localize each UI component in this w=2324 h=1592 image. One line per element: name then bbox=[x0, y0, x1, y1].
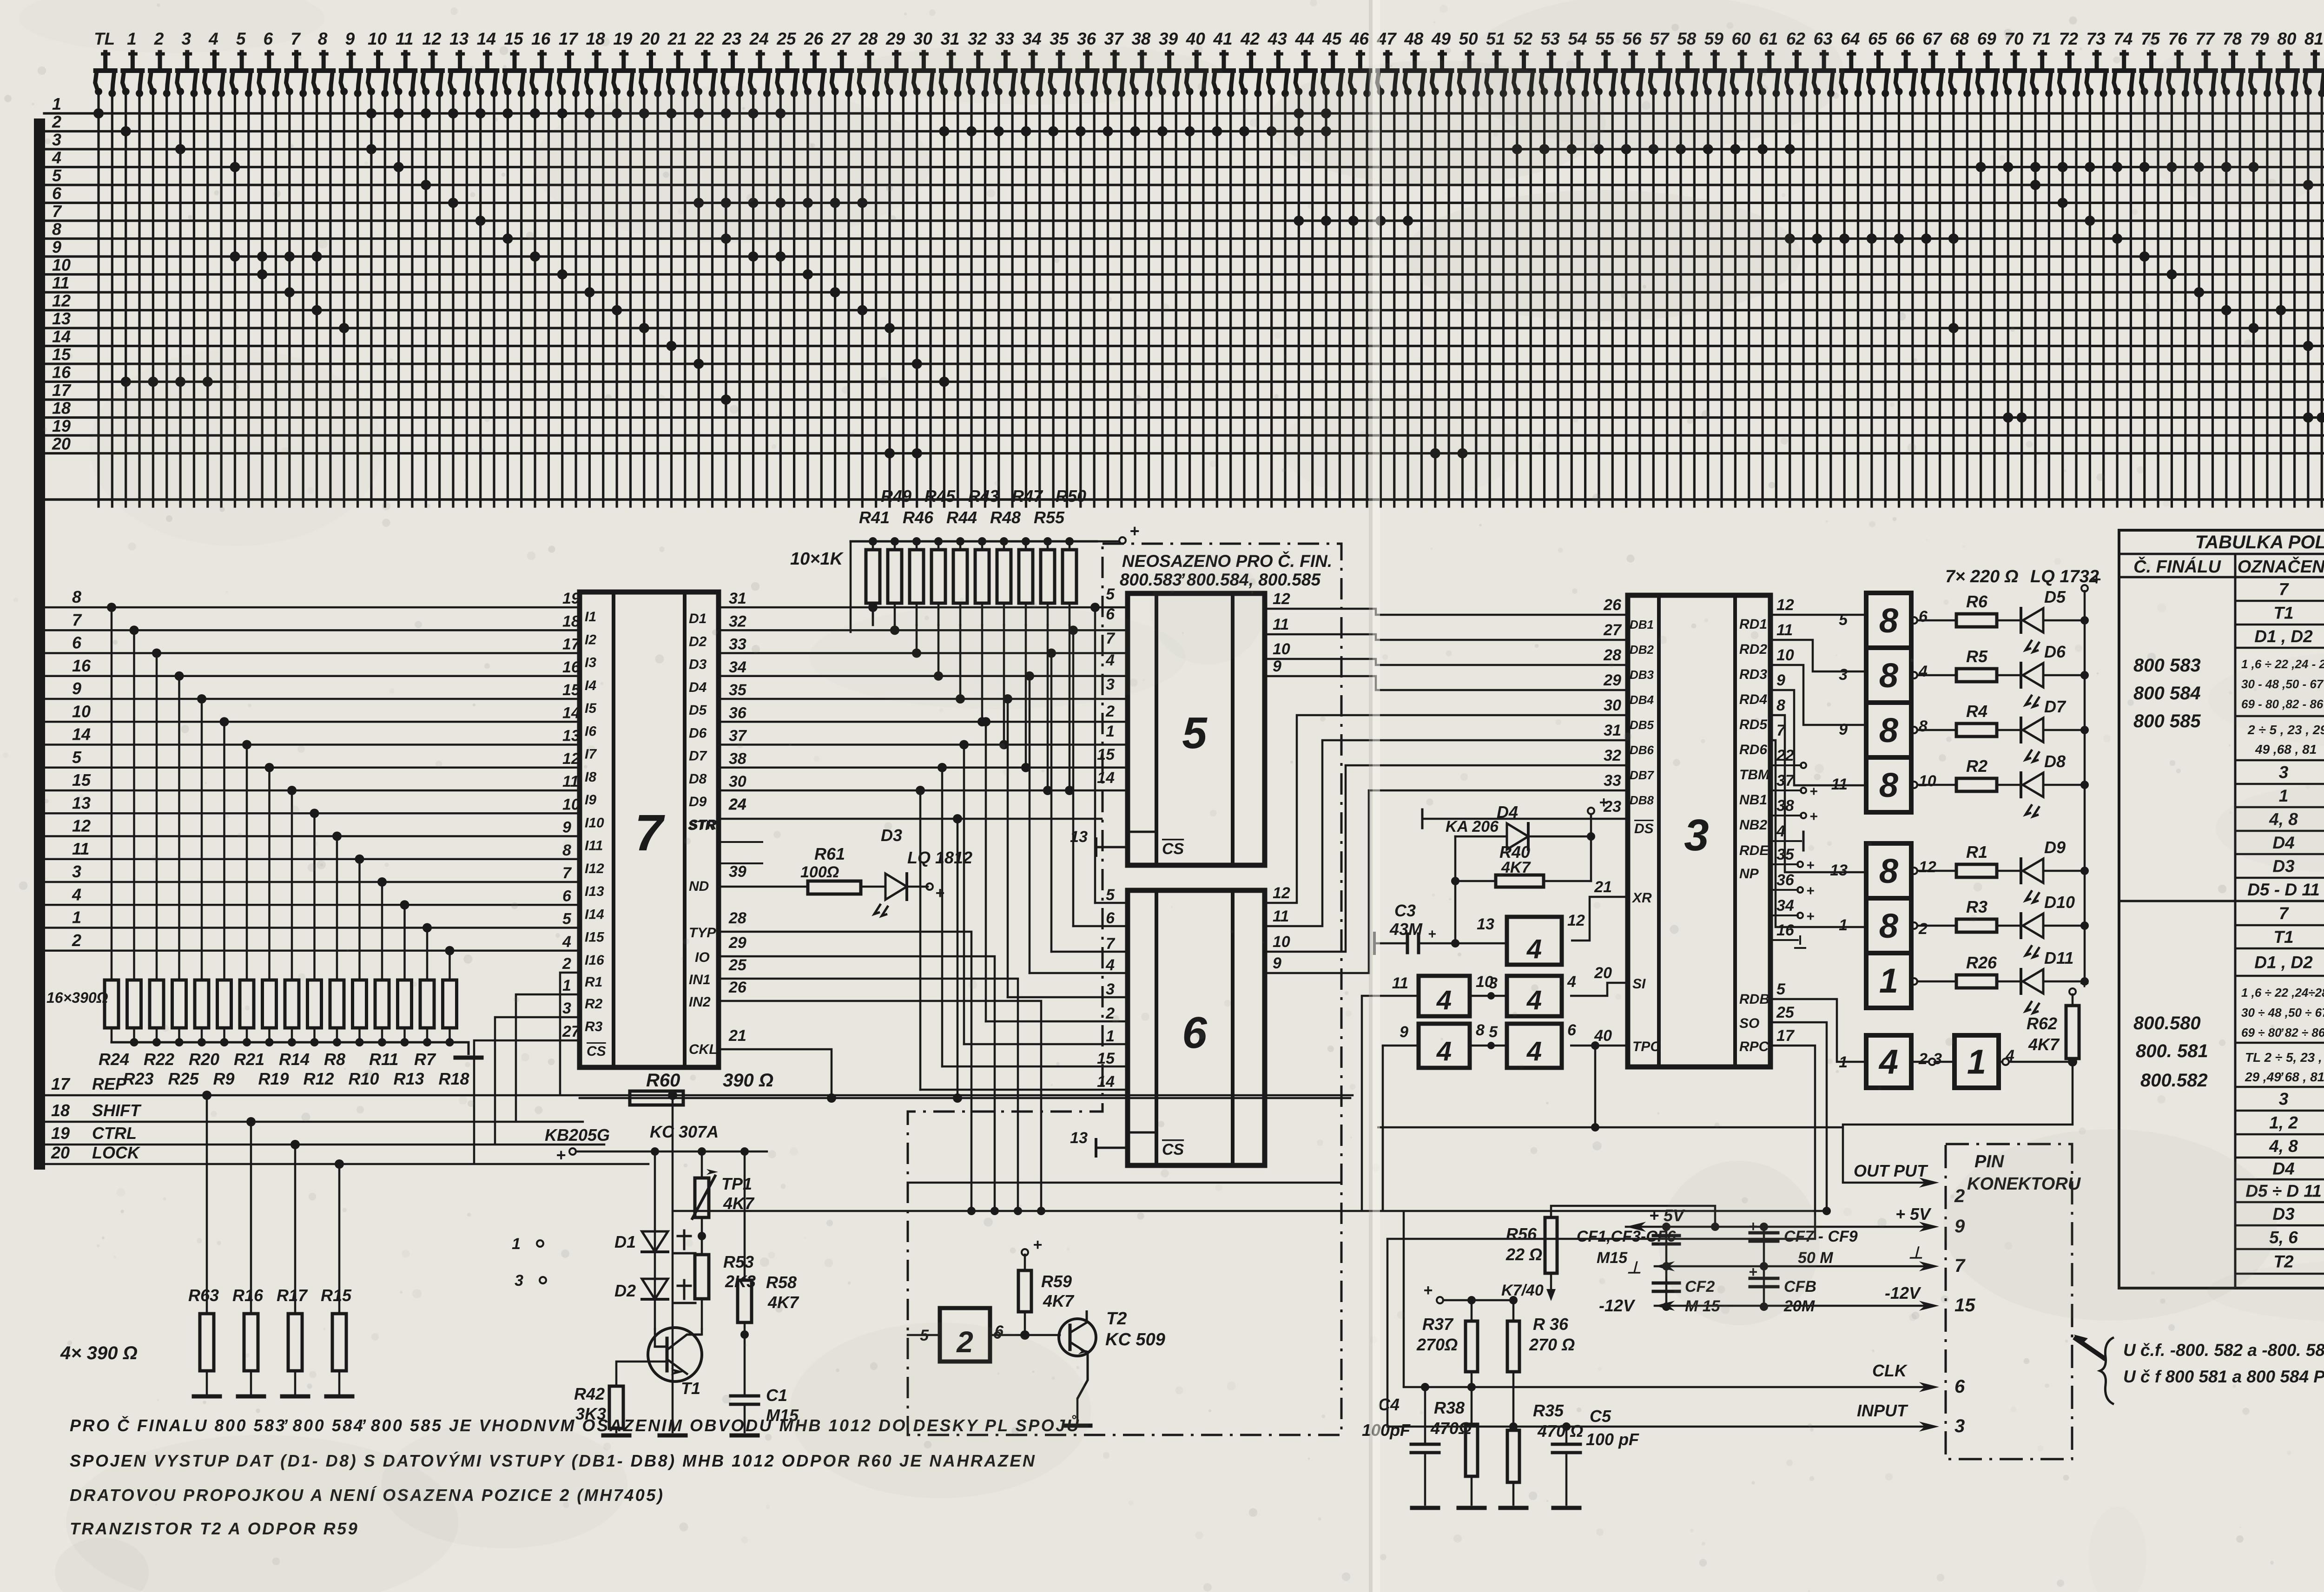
svg-text:T1: T1 bbox=[2273, 928, 2293, 947]
svg-text:TPC: TPC bbox=[1632, 1039, 1661, 1054]
svg-text:1, 2: 1, 2 bbox=[2269, 1113, 2298, 1132]
svg-text:TYP: TYP bbox=[689, 925, 716, 941]
svg-text:KB205G: KB205G bbox=[545, 1125, 610, 1145]
svg-text:8: 8 bbox=[1476, 1021, 1485, 1039]
svg-text:9: 9 bbox=[1400, 1023, 1408, 1041]
svg-text:69 ÷ 80̕ 82 ÷ 86: 69 ÷ 80̕ 82 ÷ 86 bbox=[2241, 1026, 2324, 1039]
svg-text:LOCK: LOCK bbox=[92, 1143, 141, 1162]
svg-text:I1: I1 bbox=[585, 609, 596, 625]
svg-text:76: 76 bbox=[2168, 29, 2188, 48]
svg-text:31: 31 bbox=[1604, 722, 1621, 739]
svg-text:17: 17 bbox=[559, 29, 579, 48]
svg-text:19: 19 bbox=[52, 416, 71, 435]
svg-text:30 ÷ 48 ,50 ÷ 67̕: 30 ÷ 48 ,50 ÷ 67̕ bbox=[2241, 1006, 2324, 1020]
svg-text:1: 1 bbox=[72, 908, 81, 927]
svg-text:I16: I16 bbox=[585, 953, 604, 968]
svg-text:21: 21 bbox=[728, 1027, 746, 1045]
svg-text:U č f 800 581 a 800 584: U č f 800 581 a 800 584 PROPOJIT V KONEK… bbox=[2123, 1367, 2324, 1386]
svg-text:TBM: TBM bbox=[1739, 767, 1770, 783]
svg-text:5: 5 bbox=[1489, 1023, 1498, 1041]
svg-text:10: 10 bbox=[72, 702, 91, 721]
svg-text:R59: R59 bbox=[1041, 1272, 1072, 1291]
svg-text:64: 64 bbox=[1841, 29, 1860, 48]
svg-text:12: 12 bbox=[52, 291, 71, 310]
svg-text:20: 20 bbox=[1594, 964, 1612, 982]
svg-text:R35: R35 bbox=[1533, 1401, 1564, 1420]
svg-text:26: 26 bbox=[1603, 596, 1622, 614]
svg-text:46: 46 bbox=[1349, 29, 1369, 48]
svg-text:3: 3 bbox=[562, 1000, 571, 1017]
svg-text:270Ω: 270Ω bbox=[1416, 1335, 1458, 1354]
svg-text:R3: R3 bbox=[585, 1019, 603, 1034]
svg-text:R63: R63 bbox=[188, 1286, 219, 1305]
svg-text:RD3: RD3 bbox=[1739, 667, 1767, 682]
svg-text:9: 9 bbox=[1273, 954, 1281, 972]
svg-text:U č.f. -800. 582 a -800. 58: U č.f. -800. 582 a -800. 585 PROPOJIT V … bbox=[2123, 1340, 2324, 1360]
svg-text:D5: D5 bbox=[689, 703, 707, 718]
svg-text:7: 7 bbox=[52, 202, 62, 221]
svg-text:13: 13 bbox=[1830, 862, 1848, 879]
svg-text:D4: D4 bbox=[2272, 1159, 2294, 1178]
svg-text:2: 2 bbox=[52, 112, 61, 132]
svg-text:43: 43 bbox=[1268, 29, 1287, 48]
svg-text:30: 30 bbox=[729, 773, 746, 790]
svg-text:XR: XR bbox=[1631, 890, 1652, 906]
svg-text:34: 34 bbox=[729, 658, 746, 676]
svg-text:R20: R20 bbox=[189, 1050, 219, 1069]
svg-text:R25: R25 bbox=[168, 1069, 199, 1088]
svg-text:4K7: 4K7 bbox=[2028, 1035, 2060, 1054]
svg-text:11: 11 bbox=[1273, 908, 1289, 925]
svg-text:26: 26 bbox=[804, 29, 824, 48]
svg-text:1 ,6 ÷ 22 ,24÷28̕: 1 ,6 ÷ 22 ,24÷28̕ bbox=[2241, 986, 2324, 1000]
svg-text:RDB: RDB bbox=[1739, 992, 1769, 1007]
svg-text:73: 73 bbox=[2086, 29, 2106, 48]
svg-text:D8: D8 bbox=[2044, 752, 2066, 771]
svg-text:RD6: RD6 bbox=[1739, 742, 1767, 757]
svg-text:10×1K: 10×1K bbox=[790, 549, 844, 569]
svg-text:+: + bbox=[1809, 809, 1818, 824]
svg-text:7: 7 bbox=[1106, 935, 1116, 953]
svg-text:STR: STR bbox=[688, 818, 715, 833]
svg-text:36: 36 bbox=[1776, 871, 1795, 889]
svg-text:R2: R2 bbox=[1966, 757, 1987, 776]
svg-text:R16: R16 bbox=[232, 1286, 264, 1305]
svg-text:11: 11 bbox=[1273, 616, 1289, 633]
svg-text:16: 16 bbox=[72, 656, 91, 675]
svg-text:14: 14 bbox=[72, 725, 91, 744]
svg-text:T1: T1 bbox=[2273, 604, 2293, 623]
svg-text:6: 6 bbox=[1919, 608, 1928, 625]
svg-text:3: 3 bbox=[515, 1272, 523, 1289]
svg-text:I3: I3 bbox=[585, 655, 596, 671]
svg-text:4K7: 4K7 bbox=[1043, 1291, 1075, 1310]
svg-text:R14: R14 bbox=[279, 1050, 310, 1069]
svg-text:470 Ω: 470 Ω bbox=[1537, 1421, 1583, 1441]
svg-text:27: 27 bbox=[1603, 621, 1622, 639]
svg-text:R58: R58 bbox=[766, 1273, 797, 1292]
svg-text:1: 1 bbox=[1106, 723, 1115, 740]
svg-text:I8: I8 bbox=[585, 770, 596, 785]
svg-text:TP1: TP1 bbox=[721, 1174, 752, 1193]
svg-text:R56: R56 bbox=[1506, 1224, 1537, 1243]
svg-text:D9: D9 bbox=[2044, 838, 2066, 857]
svg-text:T1: T1 bbox=[681, 1379, 700, 1398]
svg-text:9: 9 bbox=[1776, 671, 1785, 689]
svg-text:D2: D2 bbox=[614, 1281, 636, 1300]
svg-text:3: 3 bbox=[2279, 763, 2289, 782]
svg-text:I10: I10 bbox=[585, 815, 604, 830]
svg-text:RD2: RD2 bbox=[1739, 642, 1767, 657]
svg-text:4: 4 bbox=[1526, 1036, 1542, 1066]
svg-text:29: 29 bbox=[728, 934, 746, 952]
svg-text:D10: D10 bbox=[2044, 893, 2075, 912]
svg-text:4: 4 bbox=[1918, 663, 1928, 680]
svg-text:D3: D3 bbox=[881, 826, 902, 845]
svg-text:KC 509: KC 509 bbox=[1105, 1330, 1165, 1349]
svg-text:RD4: RD4 bbox=[1739, 692, 1767, 707]
svg-text:DB4: DB4 bbox=[1630, 693, 1654, 707]
svg-text:R5: R5 bbox=[1966, 647, 1988, 666]
svg-text:15: 15 bbox=[1097, 746, 1115, 763]
svg-text:R9: R9 bbox=[213, 1069, 235, 1088]
svg-text:7: 7 bbox=[562, 864, 572, 882]
svg-text:R60: R60 bbox=[646, 1070, 680, 1091]
svg-text:D1 , D2: D1 , D2 bbox=[2254, 953, 2313, 972]
svg-text:68: 68 bbox=[1950, 29, 1969, 48]
svg-text:4: 4 bbox=[1436, 985, 1452, 1015]
svg-text:OZNAČENÍ: OZNAČENÍ bbox=[2238, 556, 2324, 577]
svg-text:R17: R17 bbox=[277, 1286, 308, 1305]
svg-text:9: 9 bbox=[562, 819, 571, 836]
svg-text:25: 25 bbox=[1776, 1004, 1795, 1021]
svg-text:8: 8 bbox=[1879, 766, 1899, 804]
svg-text:13: 13 bbox=[1070, 828, 1088, 846]
svg-text:11: 11 bbox=[1392, 974, 1408, 992]
svg-text:39: 39 bbox=[1159, 29, 1178, 48]
svg-text:R8: R8 bbox=[324, 1050, 345, 1069]
svg-text:5: 5 bbox=[72, 748, 82, 767]
svg-text:16: 16 bbox=[531, 29, 551, 48]
svg-text:R55: R55 bbox=[1034, 508, 1065, 527]
svg-text:SI: SI bbox=[1632, 976, 1646, 992]
svg-text:390 Ω: 390 Ω bbox=[723, 1070, 773, 1091]
svg-text:6: 6 bbox=[1954, 1376, 1965, 1397]
svg-text:10: 10 bbox=[1776, 646, 1794, 664]
svg-text:+: + bbox=[1599, 794, 1608, 811]
svg-text:37: 37 bbox=[1104, 29, 1125, 48]
svg-text:13: 13 bbox=[449, 29, 469, 48]
svg-text:C4: C4 bbox=[1378, 1395, 1400, 1414]
svg-text:CTRL: CTRL bbox=[92, 1124, 137, 1143]
svg-text:R61: R61 bbox=[814, 844, 845, 863]
svg-text:31: 31 bbox=[729, 590, 746, 607]
svg-text:5: 5 bbox=[1106, 585, 1115, 603]
svg-text:C5: C5 bbox=[1590, 1407, 1611, 1426]
svg-text:1: 1 bbox=[52, 94, 61, 113]
svg-text:22: 22 bbox=[694, 29, 714, 48]
svg-text:11: 11 bbox=[396, 29, 413, 48]
svg-text:6: 6 bbox=[1106, 909, 1115, 927]
svg-text:1: 1 bbox=[1879, 961, 1898, 1000]
svg-text:4: 4 bbox=[1436, 1036, 1452, 1066]
svg-text:45: 45 bbox=[1322, 29, 1342, 48]
svg-text:RD5: RD5 bbox=[1739, 717, 1768, 732]
svg-text:OUT PUT: OUT PUT bbox=[1854, 1161, 1928, 1180]
svg-text:10: 10 bbox=[368, 29, 387, 48]
svg-text:16: 16 bbox=[1776, 921, 1795, 939]
svg-text:10: 10 bbox=[52, 256, 71, 275]
svg-text:D9: D9 bbox=[689, 794, 707, 809]
svg-text:15: 15 bbox=[1097, 1050, 1115, 1067]
svg-text:4: 4 bbox=[1567, 973, 1576, 991]
svg-text:R1: R1 bbox=[585, 974, 602, 990]
svg-text:-12V: -12V bbox=[1599, 1296, 1636, 1315]
svg-text:1: 1 bbox=[562, 977, 571, 994]
svg-text:R50: R50 bbox=[1056, 487, 1086, 506]
svg-text:KA 206: KA 206 bbox=[1446, 818, 1499, 835]
svg-text:8: 8 bbox=[52, 220, 61, 239]
svg-text:7× 220 Ω: 7× 220 Ω bbox=[1945, 567, 2019, 586]
svg-text:D5: D5 bbox=[2044, 587, 2066, 606]
svg-text:R47: R47 bbox=[1012, 487, 1043, 506]
svg-text:65: 65 bbox=[1868, 29, 1888, 48]
svg-text:R6: R6 bbox=[1966, 592, 1988, 611]
svg-text:DB3: DB3 bbox=[1630, 668, 1654, 682]
svg-text:⊥: ⊥ bbox=[1627, 1258, 1641, 1277]
svg-text:DS: DS bbox=[1634, 821, 1654, 836]
svg-text:CKL: CKL bbox=[689, 1042, 718, 1057]
svg-text:72: 72 bbox=[2059, 29, 2079, 48]
svg-text:33: 33 bbox=[1604, 772, 1621, 789]
svg-text:32: 32 bbox=[729, 612, 746, 630]
svg-text:I14: I14 bbox=[585, 907, 604, 922]
svg-text:3: 3 bbox=[1954, 1416, 1965, 1436]
svg-text:2: 2 bbox=[1918, 1050, 1928, 1068]
svg-text:8: 8 bbox=[1879, 711, 1899, 750]
svg-text:DB1: DB1 bbox=[1630, 618, 1654, 632]
svg-text:+: + bbox=[1806, 858, 1815, 873]
svg-text:21: 21 bbox=[667, 29, 687, 48]
svg-text:11: 11 bbox=[52, 273, 69, 292]
svg-text:17: 17 bbox=[52, 381, 72, 400]
svg-text:+: + bbox=[1129, 521, 1139, 540]
svg-text:R 36: R 36 bbox=[1533, 1315, 1569, 1334]
svg-text:100 pF: 100 pF bbox=[1586, 1430, 1639, 1449]
svg-text:+: + bbox=[2080, 974, 2089, 992]
svg-text:R15: R15 bbox=[321, 1286, 352, 1305]
svg-text:15: 15 bbox=[1954, 1295, 1975, 1316]
svg-text:5: 5 bbox=[1839, 611, 1848, 629]
svg-text:8: 8 bbox=[1776, 697, 1785, 714]
svg-text:12: 12 bbox=[422, 29, 442, 48]
svg-text:81: 81 bbox=[2304, 29, 2324, 48]
svg-text:IO: IO bbox=[695, 950, 710, 965]
svg-text:TABULKA POLOVODIČOVÝCH SOUČ: TABULKA POLOVODIČOVÝCH SOUČÁSTEK bbox=[2195, 531, 2324, 553]
svg-text:R2: R2 bbox=[585, 996, 603, 1012]
svg-text:R22: R22 bbox=[144, 1050, 174, 1069]
svg-text:10: 10 bbox=[1273, 933, 1290, 951]
svg-text:3: 3 bbox=[2279, 1090, 2289, 1109]
svg-text:R43: R43 bbox=[968, 487, 999, 506]
svg-text:1: 1 bbox=[512, 1235, 521, 1253]
svg-text:30: 30 bbox=[913, 29, 933, 48]
svg-text:R46: R46 bbox=[903, 508, 934, 527]
svg-text:TL 2 ÷ 5, 23 ,: TL 2 ÷ 5, 23 , bbox=[2245, 1050, 2322, 1065]
svg-text:CLK: CLK bbox=[1872, 1361, 1908, 1380]
svg-text:1: 1 bbox=[1839, 916, 1848, 934]
svg-text:3: 3 bbox=[1684, 810, 1709, 860]
svg-text:D3: D3 bbox=[689, 657, 707, 672]
svg-text:+: + bbox=[1428, 927, 1436, 942]
svg-text:LQ 1812: LQ 1812 bbox=[907, 848, 972, 867]
svg-text:19: 19 bbox=[613, 29, 633, 48]
svg-text:39: 39 bbox=[729, 863, 746, 881]
svg-text:R44: R44 bbox=[946, 508, 977, 527]
svg-text:28: 28 bbox=[858, 29, 878, 48]
svg-text:11: 11 bbox=[1776, 621, 1793, 639]
svg-text:R49: R49 bbox=[881, 487, 911, 506]
svg-text:I12: I12 bbox=[585, 861, 604, 876]
svg-text:74: 74 bbox=[2113, 29, 2133, 48]
svg-text:69: 69 bbox=[1977, 29, 1997, 48]
svg-text:13: 13 bbox=[1070, 1129, 1088, 1147]
svg-text:CS: CS bbox=[1162, 840, 1184, 858]
svg-text:ND: ND bbox=[689, 879, 709, 894]
svg-text:3: 3 bbox=[1489, 974, 1498, 992]
svg-text:CS: CS bbox=[587, 1044, 606, 1059]
svg-text:8: 8 bbox=[72, 587, 81, 606]
svg-text:29: 29 bbox=[885, 29, 905, 48]
svg-text:DB7: DB7 bbox=[1630, 768, 1655, 782]
svg-text:SHIFT: SHIFT bbox=[92, 1101, 142, 1120]
svg-text:24: 24 bbox=[749, 29, 769, 48]
svg-text:5: 5 bbox=[1776, 980, 1786, 998]
svg-text:R10: R10 bbox=[349, 1069, 379, 1088]
svg-text:9: 9 bbox=[345, 29, 355, 48]
svg-text:6: 6 bbox=[562, 887, 572, 905]
svg-text:8: 8 bbox=[318, 29, 328, 48]
svg-text:6: 6 bbox=[72, 633, 82, 652]
svg-text:9: 9 bbox=[52, 237, 61, 257]
svg-text:67: 67 bbox=[1922, 29, 1943, 48]
svg-text:12: 12 bbox=[1273, 590, 1290, 608]
svg-text:3: 3 bbox=[52, 130, 61, 149]
svg-text:LQ 1732: LQ 1732 bbox=[2030, 567, 2099, 586]
svg-text:5: 5 bbox=[1106, 886, 1115, 904]
svg-text:RDE: RDE bbox=[1739, 843, 1769, 858]
svg-text:48: 48 bbox=[1404, 29, 1424, 48]
svg-text:800.580: 800.580 bbox=[2133, 1013, 2201, 1033]
svg-text:42: 42 bbox=[1240, 29, 1260, 48]
svg-text:1: 1 bbox=[1967, 1043, 1986, 1081]
svg-text:D1: D1 bbox=[614, 1232, 636, 1251]
svg-text:4K7: 4K7 bbox=[1501, 859, 1531, 876]
svg-text:R18: R18 bbox=[439, 1069, 469, 1088]
svg-text:38: 38 bbox=[1131, 29, 1151, 48]
svg-text:35: 35 bbox=[729, 681, 747, 699]
svg-text:R37: R37 bbox=[1422, 1315, 1454, 1334]
svg-text:+: + bbox=[1423, 1282, 1433, 1299]
svg-text:43M: 43M bbox=[1389, 920, 1423, 939]
svg-text:40: 40 bbox=[1594, 1027, 1612, 1045]
svg-text:22 Ω: 22 Ω bbox=[1505, 1245, 1542, 1264]
svg-text:I2: I2 bbox=[585, 632, 596, 647]
svg-text:D1 , D2: D1 , D2 bbox=[2254, 627, 2313, 646]
svg-text:R45: R45 bbox=[924, 487, 956, 506]
svg-text:9: 9 bbox=[1273, 658, 1281, 675]
svg-text:23: 23 bbox=[722, 29, 742, 48]
svg-text:R41: R41 bbox=[859, 508, 890, 527]
svg-text:30: 30 bbox=[1604, 697, 1621, 714]
svg-text:R3: R3 bbox=[1966, 897, 1987, 916]
svg-text:14: 14 bbox=[1097, 769, 1115, 787]
svg-text:R26: R26 bbox=[1966, 953, 1997, 972]
svg-text:I9: I9 bbox=[585, 792, 596, 808]
svg-text:13: 13 bbox=[52, 309, 71, 328]
svg-text:4: 4 bbox=[52, 148, 61, 167]
svg-text:D7: D7 bbox=[689, 749, 707, 764]
svg-text:I5: I5 bbox=[585, 701, 597, 716]
svg-text:15: 15 bbox=[72, 770, 91, 789]
svg-text:5: 5 bbox=[1182, 708, 1208, 758]
svg-text:R42: R42 bbox=[574, 1384, 605, 1403]
svg-text:17: 17 bbox=[51, 1074, 71, 1093]
svg-text:RPC: RPC bbox=[1739, 1039, 1769, 1054]
svg-text:2: 2 bbox=[1918, 920, 1928, 938]
svg-text:44: 44 bbox=[1294, 29, 1314, 48]
svg-text:11: 11 bbox=[562, 773, 579, 790]
svg-text:C3: C3 bbox=[1394, 901, 1416, 920]
svg-text:NB2: NB2 bbox=[1739, 817, 1767, 833]
svg-text:8: 8 bbox=[1879, 907, 1899, 945]
svg-text:+: + bbox=[1033, 1236, 1042, 1254]
svg-text:R7: R7 bbox=[414, 1050, 436, 1069]
svg-text:49: 49 bbox=[1431, 29, 1451, 48]
svg-text:D4: D4 bbox=[689, 680, 707, 695]
svg-text:C1: C1 bbox=[766, 1386, 787, 1405]
svg-text:+: + bbox=[2092, 571, 2101, 588]
svg-text:33: 33 bbox=[729, 636, 746, 653]
svg-text:16: 16 bbox=[52, 363, 71, 382]
svg-text:17: 17 bbox=[1776, 1027, 1795, 1045]
svg-text:9: 9 bbox=[1839, 721, 1848, 738]
svg-text:71: 71 bbox=[2032, 29, 2051, 48]
svg-text:3: 3 bbox=[1106, 980, 1115, 998]
svg-text:IN2: IN2 bbox=[689, 994, 711, 1010]
svg-text:12: 12 bbox=[1776, 596, 1794, 614]
svg-text:R13: R13 bbox=[394, 1069, 424, 1088]
svg-text:2: 2 bbox=[1105, 703, 1115, 720]
svg-text:8: 8 bbox=[1919, 717, 1928, 735]
svg-text:29: 29 bbox=[1603, 671, 1621, 689]
svg-text:+: + bbox=[556, 1145, 566, 1164]
svg-text:3: 3 bbox=[1839, 666, 1848, 684]
svg-text:7: 7 bbox=[2279, 580, 2290, 599]
svg-text:800 585: 800 585 bbox=[2133, 711, 2201, 731]
svg-text:20: 20 bbox=[640, 29, 660, 48]
svg-text:4: 4 bbox=[1105, 956, 1115, 974]
svg-text:12: 12 bbox=[72, 816, 91, 835]
svg-text:470Ω: 470Ω bbox=[1430, 1419, 1472, 1438]
svg-text:49 ,68 , 81: 49 ,68 , 81 bbox=[2255, 742, 2317, 757]
svg-text:20: 20 bbox=[51, 1143, 70, 1162]
svg-text:4, 8: 4, 8 bbox=[2269, 1137, 2298, 1156]
svg-text:5: 5 bbox=[562, 910, 572, 928]
svg-text:14: 14 bbox=[1097, 1073, 1115, 1091]
svg-text:28: 28 bbox=[1603, 646, 1621, 664]
svg-text:D4: D4 bbox=[1497, 803, 1518, 822]
